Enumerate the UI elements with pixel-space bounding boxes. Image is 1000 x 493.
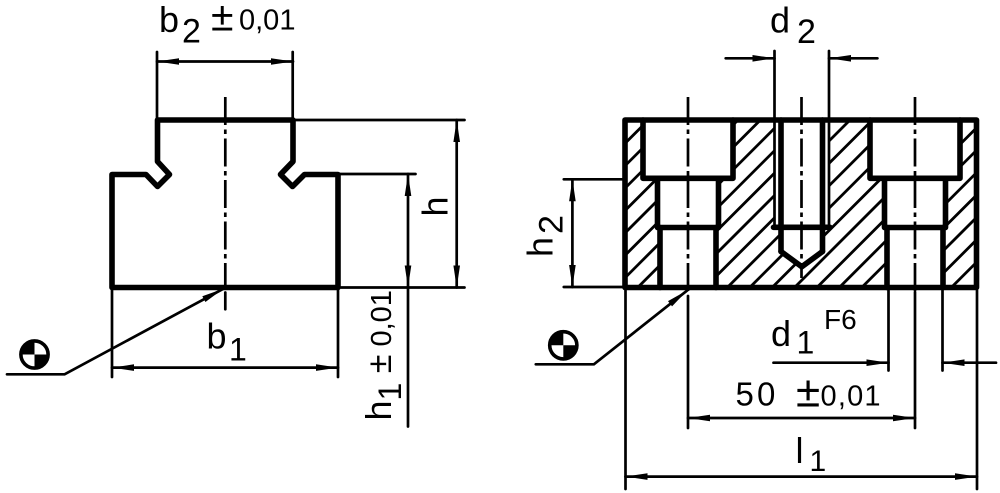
node: leader arrow (left view) <box>202 286 225 302</box>
svg-text:1: 1 <box>797 325 815 361</box>
wire: l1 right extension line <box>976 291 979 490</box>
node: right counterbored hole white fill <box>870 120 960 288</box>
wire: 50 right extension line <box>914 292 917 428</box>
wire: h bottom extension line <box>341 286 465 289</box>
node: machining symbol (section view) <box>550 332 577 359</box>
node: label d1 F6 <box>771 304 857 361</box>
wire: l1 left extension line <box>624 291 627 490</box>
svg-text:h: h <box>415 196 456 216</box>
node: machining symbol (left view) <box>21 341 48 368</box>
wire: d1 left extension line <box>887 291 890 371</box>
node: left counterbored hole white fill <box>643 120 733 288</box>
node: label b1 <box>207 315 247 367</box>
node: l1 left arrow <box>626 473 648 480</box>
wire: 50 dimension line <box>688 417 915 420</box>
svg-text:b: b <box>207 315 227 356</box>
wire: l1 dimension line <box>626 475 978 478</box>
node: center tapped hole outline <box>774 51 831 267</box>
node: label l1 <box>796 430 827 478</box>
wire: h top extension line <box>294 119 465 122</box>
svg-text:50: 50 <box>736 376 779 413</box>
node: h2 top arrow <box>569 179 576 201</box>
wire: h dimension line <box>455 120 458 288</box>
wire: b1 right extension line <box>337 291 340 378</box>
node: right hole outline <box>870 120 960 288</box>
node: T-nut profile outline <box>112 120 338 288</box>
node: leader arrow (section view) <box>668 288 689 307</box>
svg-text:0,01: 0,01 <box>821 381 882 413</box>
node: 50 left arrow <box>688 415 710 422</box>
wire: d1 dimension line right tail <box>943 361 997 364</box>
svg-text:l: l <box>796 430 804 471</box>
node: b2 left arrow <box>157 58 179 65</box>
wire: h2 top extension line <box>564 178 623 181</box>
node: left view centerline <box>224 97 227 287</box>
node: section block outline <box>625 120 977 288</box>
wire: b1 left extension line <box>111 291 114 378</box>
svg-text:±: ± <box>796 368 820 417</box>
node: b1 right arrow <box>316 364 338 371</box>
node: center hole centerline <box>800 97 803 278</box>
wire: h2 bottom extension line <box>564 286 623 289</box>
wire: 50 left extension line <box>687 296 690 428</box>
node: 50 right arrow <box>893 415 915 422</box>
wire: b1 dimension line <box>112 366 338 369</box>
node: d2 left arrow <box>753 55 775 62</box>
wire: h1 dimension line <box>407 174 410 427</box>
node: left hole centerline <box>687 97 690 292</box>
node: label b2 +-0,01 <box>159 0 295 50</box>
wire: h2 dimension line <box>571 179 574 287</box>
node: hatching <box>454 95 1000 292</box>
svg-text:0,01: 0,01 <box>239 5 295 37</box>
node: center tapped hole white fill <box>775 120 830 267</box>
node: h top arrow <box>453 120 460 142</box>
svg-text:b: b <box>159 0 179 40</box>
svg-text:1: 1 <box>229 332 247 368</box>
svg-text:1: 1 <box>810 445 827 478</box>
node: h1 top arrow <box>405 174 412 196</box>
node: label 50 +-0,01 <box>736 368 882 417</box>
node: label d2 <box>770 0 816 51</box>
node: d2 right arrow <box>829 55 851 62</box>
node: right hole centerline <box>914 97 917 292</box>
node: d1 left arrow <box>867 359 889 366</box>
svg-text:d: d <box>770 0 790 41</box>
svg-text:d: d <box>771 313 791 354</box>
wire: d1 right extension line <box>941 291 944 371</box>
wire: d2 dimension line left tail <box>726 57 775 60</box>
node: h bottom arrow <box>453 266 460 288</box>
wire: leader line to bottom face (left view) <box>7 289 223 375</box>
wire: b2 left extension line <box>156 52 159 118</box>
node: h1 bottom arrow <box>405 266 412 288</box>
wire: leader line to bottom face (section view) <box>536 290 688 364</box>
node: l1 right arrow <box>955 473 977 480</box>
node: b1 left arrow <box>112 364 134 371</box>
wire: d1 dimension line left tail <box>774 361 889 364</box>
wire: b2 dimension line <box>157 60 293 63</box>
node: b2 right arrow <box>271 58 293 65</box>
node: left hole outline <box>643 120 733 288</box>
node: h2 bottom arrow <box>569 265 576 287</box>
svg-text:F6: F6 <box>824 304 857 335</box>
svg-text:2: 2 <box>182 12 201 50</box>
svg-text:±: ± <box>211 0 234 40</box>
wire: b2 right extension line <box>291 52 294 118</box>
node: d1 right arrow <box>943 359 965 366</box>
wire: h1 top extension line <box>340 173 416 176</box>
wire: d2 dimension line right tail <box>829 57 877 60</box>
svg-text:2: 2 <box>797 13 816 51</box>
